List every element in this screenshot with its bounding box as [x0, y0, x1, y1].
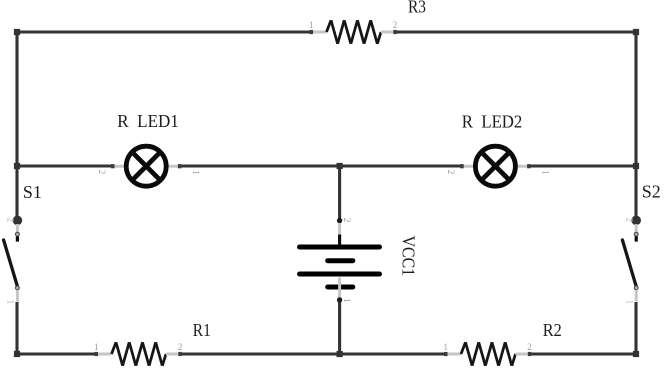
svg-text:1: 1: [444, 342, 449, 352]
svg-text:2: 2: [97, 170, 107, 175]
svg-text:1: 1: [309, 20, 314, 30]
svg-text:R3: R3: [408, 0, 426, 16]
svg-text:2: 2: [446, 170, 456, 175]
svg-text:1: 1: [191, 170, 201, 175]
svg-text:S1: S1: [23, 182, 42, 202]
svg-text:2: 2: [6, 218, 16, 223]
svg-text:2: 2: [393, 20, 398, 30]
svg-text:1: 1: [540, 170, 550, 175]
svg-text:R2: R2: [543, 320, 562, 340]
svg-text:1: 1: [94, 342, 99, 352]
svg-text:1: 1: [625, 300, 635, 305]
svg-text:S2: S2: [642, 182, 661, 202]
svg-text:1: 1: [342, 298, 352, 303]
svg-text:2: 2: [625, 218, 635, 223]
svg-text:2: 2: [178, 342, 183, 352]
svg-text:R LED1: R LED1: [117, 111, 179, 131]
svg-text:R1: R1: [193, 320, 211, 340]
svg-text:2: 2: [342, 218, 352, 223]
svg-text:VCC1: VCC1: [398, 236, 418, 277]
svg-text:2: 2: [527, 342, 532, 352]
svg-text:R LED2: R LED2: [462, 112, 523, 132]
svg-text:1: 1: [6, 300, 16, 305]
